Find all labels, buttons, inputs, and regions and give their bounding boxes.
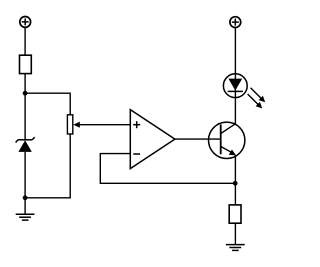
wire V+ to R1 bbox=[24, 27, 26, 55]
LED emission arrow 2 bbox=[248, 94, 263, 108]
wire zener to ground bbox=[24, 152, 26, 214]
wire R2 to ground bbox=[234, 223, 236, 244]
op-amp U1 bbox=[130, 110, 175, 169]
transistor Q1 bbox=[209, 122, 245, 158]
LED D2 bbox=[223, 74, 247, 98]
node C junction dot bbox=[233, 181, 238, 186]
resistor R2 bbox=[229, 205, 241, 223]
zener diode D1 bbox=[16, 137, 35, 152]
wire R1 to zener bbox=[24, 74, 26, 140]
wire wiper to op-amp + input bbox=[79, 124, 130, 126]
power supply V+ right bbox=[230, 17, 241, 28]
ground left bbox=[16, 214, 35, 220]
wire collector vertical (V+ down through LED to transistor) bbox=[234, 28, 236, 124]
resistor R1 bbox=[20, 55, 32, 73]
wire node A to potentiometer top bbox=[25, 93, 70, 115]
power supply V+ left bbox=[20, 17, 31, 28]
wire emitter to R2 bbox=[234, 155, 236, 205]
wire node B to potentiometer bottom bbox=[25, 134, 70, 198]
node B junction dot bbox=[23, 195, 28, 200]
wire op-amp output to transistor base bbox=[175, 138, 221, 140]
node A junction dot bbox=[23, 91, 28, 96]
wire op-amp - input feedback bbox=[100, 154, 235, 184]
LED emission arrow 1 bbox=[251, 88, 266, 103]
potentiometer RV1 bbox=[67, 115, 79, 134]
ground right bbox=[226, 245, 245, 251]
